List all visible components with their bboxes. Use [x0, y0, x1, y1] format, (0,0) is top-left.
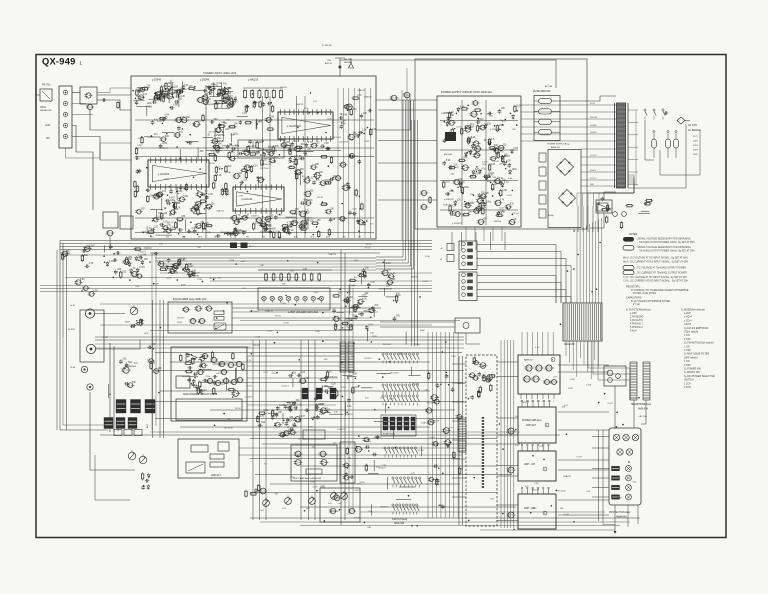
- svg-text:100P: 100P: [241, 261, 247, 263]
- tuner RF front-end part 25: [136, 103, 152, 106]
- tuner RF front-end part 54: [208, 85, 219, 91]
- above IC1 parts part 8: [253, 100, 255, 108]
- below psu drop wire v3: [475, 232, 477, 250]
- power supply regulator parts part 58: [453, 179, 463, 185]
- tuner RF front-end part 29: [134, 97, 145, 100]
- muting detector cluster A part 6: [130, 268, 136, 274]
- tuner RF front-end part 34: [141, 86, 151, 90]
- value label scatter 500-6: [535, 347, 540, 349]
- tuner gap fill y188 part 8: [146, 189, 151, 193]
- 4ch decoder cluster part 19: [279, 432, 291, 438]
- svg-text:6.8K: 6.8K: [227, 172, 232, 174]
- capacitor ant C1: [102, 98, 107, 102]
- value label scatter 440-20: [486, 113, 490, 115]
- center column parts part 3: [459, 467, 461, 475]
- svg-text:VR 5K: VR 5K: [209, 163, 216, 165]
- svg-text:OSC: OSC: [342, 237, 347, 239]
- power supply regulator parts part 50: [471, 144, 477, 150]
- below IC1 parts part 10: [284, 144, 293, 151]
- switch wires cluster part 11: [392, 429, 394, 439]
- tuner center fill part 3: [221, 165, 232, 173]
- below IC1 parts part 5: [310, 142, 320, 148]
- below tuner left fill part 1: [134, 248, 142, 250]
- vertical fan wire up 7: [595, 221, 597, 303]
- wire equalizer to switch 3: [232, 317, 370, 319]
- sub-channel inner parts part 1: [199, 369, 212, 371]
- transistor sub-ch QA5: [235, 361, 243, 366]
- tone output cluster part 17: [324, 376, 329, 382]
- svg-text:1S2473: 1S2473: [378, 468, 386, 470]
- tuner RF front-end part 49: [208, 89, 216, 94]
- vertical fan wire down 4: [576, 341, 578, 377]
- wire into amp A 7: [552, 332, 554, 355]
- tuner center fill part 10: [269, 157, 279, 163]
- bus extend y264: [160, 263, 376, 265]
- junction dot 155-22: [223, 413, 225, 415]
- tuner mid row AM converter part 26: [215, 128, 221, 143]
- tuner-psu link wire h2: [378, 140, 437, 142]
- svg-text:220u: 220u: [290, 477, 296, 479]
- wire fan 3: [477, 259, 566, 304]
- tuner left of U2 part 7: [134, 190, 136, 198]
- transformer tap 7: [628, 183, 638, 185]
- tuner mid row AM converter part 25: [192, 121, 201, 127]
- value label scatter 252-12: [330, 511, 340, 513]
- svg-text:2 OFF: 2 OFF: [684, 349, 691, 352]
- svg-text:MULTI AMP ASSY AWM-048: MULTI AMP ASSY AWM-048: [293, 477, 322, 480]
- junction dot 135-2: [256, 123, 258, 125]
- svg-text:Ta IN: Ta IN: [70, 305, 75, 307]
- power amp A pin 3: [531, 394, 532, 403]
- svg-text:AWR-111: AWR-111: [551, 146, 561, 149]
- ctrl stub wire v2: [462, 356, 464, 525]
- svg-text:0.047: 0.047: [299, 416, 305, 418]
- value label scatter 136-45: [227, 100, 231, 102]
- power amp B pin 5: [543, 400, 545, 407]
- lamp driver cluster part 15: [395, 294, 401, 303]
- value label scatter 100-11: [267, 330, 273, 332]
- svg-text:10K: 10K: [489, 115, 493, 117]
- bottom small parts part 3: [259, 488, 268, 494]
- tuner below U2 AGC part 6: [164, 228, 176, 230]
- value label scatter 136-7: [157, 121, 162, 123]
- svg-text:100u: 100u: [346, 327, 352, 329]
- svg-text:AWH-027: AWH-027: [526, 424, 537, 427]
- power supply regulator parts part 44: [474, 109, 482, 115]
- fuse AC F902: [666, 131, 671, 159]
- power feed top wire: [560, 96, 616, 101]
- value label scatter 440-25: [507, 195, 513, 197]
- tuner meter drive part 12: [342, 185, 351, 191]
- center column parts part 4: [432, 442, 440, 447]
- svg-text:0.047: 0.047: [468, 203, 474, 205]
- tuner RF front-end part 41: [175, 93, 182, 98]
- svg-text:6.8K: 6.8K: [296, 422, 301, 424]
- fuse F1: [534, 98, 560, 103]
- bottom center fill part 1: [365, 464, 367, 472]
- control amp input parts part 3: [490, 384, 492, 392]
- center column parts part 13: [433, 464, 439, 469]
- amp link band wire h6: [497, 475, 518, 477]
- transistor sub-ch QA3: [218, 361, 226, 366]
- tone output cluster part 4: [347, 373, 358, 379]
- wire fan 1: [477, 245, 556, 304]
- tuner right section part 37: [285, 214, 297, 217]
- below IC1 parts part 4: [326, 147, 331, 151]
- junction dot 135-13: [317, 112, 319, 114]
- between jacks and subch part 6: [124, 362, 133, 369]
- tuner IF discrete part 10: [249, 153, 257, 155]
- tone output cluster part 10: [329, 413, 343, 415]
- 4ch decoder cluster part 9: [289, 430, 297, 435]
- dark cap bank 2: [131, 400, 141, 414]
- table S1 row 1: [630, 312, 637, 315]
- svg-text:S₆ POWER SW: S₆ POWER SW: [684, 368, 702, 371]
- svg-text:33K: 33K: [295, 209, 300, 211]
- junction dot 135-29: [199, 168, 201, 170]
- value label scatter 440-24: [499, 208, 505, 210]
- tuner center fill part 12: [229, 155, 238, 161]
- svg-text:0.047: 0.047: [576, 457, 582, 459]
- value label scatter 252-17: [298, 439, 308, 441]
- lamp-switch gap fill part 5: [332, 308, 336, 313]
- bottom center fill part 5: [372, 453, 377, 457]
- transformer tap 1: [628, 109, 638, 111]
- svg-text:2SC1000: 2SC1000: [208, 131, 218, 133]
- schematic sheet border frame: [36, 55, 726, 538]
- tuner right upper fill part 3: [360, 113, 368, 119]
- psu drop wire 3: [483, 227, 485, 241]
- svg-text:NOTES: NOTES: [629, 233, 638, 236]
- value label scatter 160-32: [382, 344, 392, 346]
- svg-text:10K: 10K: [370, 332, 374, 334]
- svg-text:75Ω: 75Ω: [327, 60, 331, 62]
- control amp input parts part 1: [468, 395, 474, 400]
- junction dot 100-3: [103, 255, 105, 257]
- junction dot 440-16: [505, 119, 507, 121]
- muting detector cluster B part 9: [177, 260, 185, 266]
- tuner mid row AM converter part 30: [222, 143, 239, 146]
- lamp driver cluster part 1: [341, 320, 352, 324]
- svg-text:μ HA1141: μ HA1141: [241, 197, 253, 201]
- tuner internal wire h5: [135, 232, 374, 234]
- svg-text:AWF-013: AWF-013: [211, 474, 221, 477]
- svg-text:100u: 100u: [292, 214, 298, 216]
- svg-text:1K: 1K: [343, 123, 346, 125]
- control amp input parts part 4: [488, 374, 496, 377]
- amp link band wire h5: [497, 465, 518, 467]
- svg-text:2.2K: 2.2K: [208, 194, 213, 196]
- tuner RF front-end part 10: [203, 88, 212, 93]
- svg-text:AWX-054: AWX-054: [638, 408, 648, 411]
- value label scatter 500-0: [608, 403, 614, 405]
- svg-text:VIOLET: VIOLET: [590, 155, 598, 157]
- tuner bottom row part 15: [231, 231, 235, 238]
- junction dot 497-3: [573, 521, 575, 523]
- muting amp parts part 3: [346, 447, 348, 455]
- svg-text:GREEN: GREEN: [590, 125, 597, 127]
- filter dark bar 3: [397, 417, 402, 430]
- svg-text:33K: 33K: [195, 275, 199, 277]
- value label scatter 440-4: [481, 207, 487, 209]
- left col wire v1: [56, 250, 58, 430]
- value label scatter 440-23: [445, 193, 450, 195]
- svg-text:4.7K: 4.7K: [242, 113, 247, 115]
- tuner mid verticals wire v2: [269, 96, 271, 238]
- label pot 5: [338, 503, 343, 505]
- tone output cluster part 25: [319, 407, 328, 413]
- amp link band wire h1: [497, 361, 518, 363]
- label POWER SUPPLY ASSY 2: [547, 143, 570, 150]
- svg-text:2SC1000: 2SC1000: [304, 218, 314, 220]
- value label scatter 136-41: [364, 95, 372, 98]
- tuner right section part 1: [325, 208, 335, 214]
- svg-text:220u: 220u: [368, 511, 374, 513]
- value label scatter 252-5: [264, 464, 268, 466]
- power amp C pin 2: [527, 444, 529, 451]
- power bus vertical 3: [506, 340, 508, 528]
- value label scatter 160-15: [281, 385, 289, 387]
- junction dot 135-24: [328, 165, 330, 167]
- antenna junction dot: [339, 66, 342, 69]
- label Tb: [70, 367, 76, 369]
- svg-text:4.7K: 4.7K: [504, 182, 509, 184]
- value label scatter 105-24: [181, 284, 187, 286]
- amp link band wire h7: [497, 504, 518, 506]
- junction dot 135-19: [197, 234, 199, 236]
- amp link band wire h3: [497, 417, 518, 419]
- power amp A Q2: [534, 365, 543, 371]
- svg-text:μ 2SD979: μ 2SD979: [444, 199, 455, 201]
- svg-text:6.8K: 6.8K: [508, 178, 513, 180]
- svg-text:AC 120V: AC 120V: [688, 124, 698, 127]
- MPX filter box 1: [103, 212, 118, 228]
- value label scatter 136-49: [190, 231, 194, 233]
- tuner right upper fill part 6: [347, 134, 357, 140]
- sub-channel inner parts part 13: [203, 379, 209, 383]
- tuner IF discrete part 13: [226, 144, 233, 150]
- tuner RF front-end part 59: [137, 87, 150, 89]
- wire to transformer y157: [581, 156, 616, 158]
- value label scatter 105-12: [411, 275, 419, 278]
- value label scatter 440-18: [502, 121, 506, 123]
- value label scatter 105-11: [159, 243, 164, 245]
- below transformer parts part 10: [641, 211, 649, 213]
- transformer bend wire 1: [577, 183, 634, 206]
- table S2 row 1: [684, 312, 691, 315]
- svg-text:0.047: 0.047: [507, 195, 513, 197]
- power supply regulator parts part 81: [497, 145, 507, 151]
- ac switch S901: [644, 109, 665, 120]
- svg-text:220u: 220u: [175, 193, 181, 195]
- power supply regulator parts part 27: [448, 111, 454, 119]
- power supply regulator parts part 24: [457, 182, 465, 188]
- junction dot 135-39: [199, 196, 201, 198]
- value label scatter 105-2: [314, 292, 320, 294]
- center col wire v6: [314, 340, 316, 520]
- mid bus wire 1: [40, 285, 432, 287]
- junction dot 250-10: [358, 435, 360, 437]
- tuner left of U2 part 2: [136, 169, 140, 174]
- svg-text:S₆ PW SW: S₆ PW SW: [322, 45, 332, 47]
- value label scatter 440-13: [494, 220, 502, 223]
- dark cap bank 1: [116, 400, 126, 414]
- wire amp out y412: [558, 411, 609, 413]
- svg-text:70mV(4Ω) OUTPUT POWER (1kHz),: 70mV(4Ω) OUTPUT POWER (1kHz), Sg SET AT …: [639, 249, 695, 252]
- label wire BLACK 9: [590, 169, 597, 172]
- control amp input parts part 16: [477, 372, 481, 377]
- tuner below U2 AGC part 18: [150, 209, 163, 211]
- between jacks and subch part 7: [127, 382, 137, 388]
- above IC1 parts part 6: [253, 101, 258, 105]
- table S2 row 11: [684, 349, 691, 352]
- value label scatter 105-10: [425, 256, 430, 258]
- multi amp box: [291, 445, 337, 481]
- between jacks and subch part 2: [147, 359, 155, 364]
- value label scatter 500-12: [532, 489, 540, 491]
- lamp resistor R7: [310, 272, 313, 281]
- value label scatter 100-6: [315, 331, 321, 333]
- svg-text:1S2473: 1S2473: [251, 216, 259, 218]
- label EQUALIZER Assy AWF-012: [173, 297, 207, 301]
- svg-text:FM: FM: [166, 237, 169, 239]
- junction dot 135-17: [190, 222, 192, 224]
- junction dot 155-4: [342, 396, 344, 398]
- svg-text:2SC1000: 2SC1000: [228, 127, 238, 129]
- power supply regulator parts part 62: [502, 155, 511, 163]
- connector bar R1: [630, 362, 637, 400]
- tuner bottom row part 11: [263, 228, 272, 230]
- left column parts part 1: [82, 248, 90, 253]
- svg-text:100P: 100P: [362, 295, 368, 297]
- power bus vertical 5: [513, 340, 515, 528]
- left column parts part 4: [85, 263, 94, 268]
- note resistors 2: [633, 293, 656, 295]
- tuner RF front-end part 55: [213, 82, 215, 96]
- tuner right section part 26: [329, 176, 337, 181]
- power supply regulator parts part 20: [514, 105, 523, 113]
- junction dot 497-13: [515, 429, 517, 431]
- power amp A Q1: [524, 365, 533, 371]
- value label scatter 136-51: [304, 218, 314, 220]
- power supply regulator parts part 10: [443, 160, 451, 166]
- svg-text:10K: 10K: [190, 231, 194, 233]
- left col wire v2: [66, 250, 68, 430]
- tuner RF front-end part 70: [139, 86, 148, 91]
- switch wires cluster part 14: [374, 421, 390, 423]
- power supply regulator parts part 29: [470, 111, 479, 117]
- power amp B pin 2: [527, 400, 529, 407]
- junction dot 250-13: [532, 455, 534, 457]
- mid band wire 2: [160, 272, 432, 274]
- label AWH-027 D: [524, 507, 547, 515]
- junction dot 100-2: [153, 283, 155, 285]
- value label scatter 440-1: [499, 163, 503, 165]
- title suffix 1: [80, 61, 83, 66]
- value label scatter 160-30: [412, 384, 420, 386]
- svg-text:10K: 10K: [499, 163, 503, 165]
- value label scatter 500-3: [576, 457, 582, 459]
- tuner mid row AM converter part 33: [144, 135, 154, 137]
- dark cap bank 6: [128, 418, 137, 429]
- left column parts part 7: [83, 245, 95, 251]
- tuner gap fill y188 part 1: [222, 182, 227, 190]
- tone output cluster part 30: [342, 372, 353, 379]
- tuner bottom row part 1: [283, 227, 287, 232]
- value label scatter 136-18: [364, 141, 370, 143]
- svg-text:100P: 100P: [144, 333, 150, 335]
- vertical fan wire up 4: [585, 226, 587, 304]
- bus extend y261: [155, 260, 376, 262]
- center column parts part 16: [427, 419, 436, 425]
- svg-text:1K: 1K: [348, 297, 351, 299]
- svg-text:4.7K: 4.7K: [268, 186, 273, 188]
- value label scatter 100-15: [125, 321, 131, 323]
- equalizer band wire 6: [95, 347, 464, 349]
- label wire GREEN 4: [590, 132, 597, 134]
- tuner left of U2 part 6: [138, 169, 142, 174]
- svg-text:33K: 33K: [334, 412, 338, 414]
- svg-text:: SIGNAL VOLTAGE NECESSARY FOR: : SIGNAL VOLTAGE NECESSARY FOR OBTAINING: [636, 238, 691, 241]
- junction dot 135-36: [325, 132, 327, 134]
- svg-text:RED: RED: [590, 184, 595, 186]
- tuner below U2 AGC part 11: [169, 209, 179, 216]
- svg-text:33K: 33K: [491, 189, 495, 191]
- tuner below U2 AGC part 13: [161, 198, 163, 211]
- lamp driver cluster part 6: [357, 298, 368, 304]
- tuner bottom pin text 1: [150, 237, 155, 239]
- tuner IF discrete part 2: [208, 151, 218, 155]
- lamp driver cluster part 5: [364, 270, 366, 278]
- junction dot 560-1: [573, 268, 575, 270]
- svg-text:33K: 33K: [274, 494, 278, 496]
- value label scatter 252-15: [312, 486, 318, 488]
- switch wires cluster part 1: [367, 328, 369, 341]
- junction dot 250-14: [316, 490, 318, 492]
- power supply regulator parts part 6: [499, 180, 507, 186]
- tuner right upper fill part 2: [339, 113, 348, 119]
- transformer T901 winding: [617, 103, 626, 188]
- transformer core line L: [614, 103, 616, 188]
- tuner RF front-end part 40: [210, 93, 223, 96]
- tuner mid row AM converter part 8: [188, 141, 193, 145]
- tuner mid row AM converter part 5: [151, 119, 159, 125]
- junction dot 135-8: [222, 101, 224, 103]
- tuner right section part 11: [313, 172, 323, 178]
- sub-channel inner parts part 20: [235, 367, 237, 380]
- tone slider rect 3: [210, 454, 224, 459]
- svg-text:4.7K: 4.7K: [176, 265, 181, 267]
- wire to transformer y172: [581, 171, 616, 173]
- speaker terminal D: [617, 449, 623, 455]
- tuner RF front-end part 65: [196, 96, 204, 103]
- tone aux parts part 4: [141, 485, 145, 490]
- svg-text:8.2K: 8.2K: [221, 89, 226, 91]
- junction dot 100-11: [317, 298, 319, 300]
- tuner bottom row part 18: [187, 230, 192, 234]
- below transformer parts part 8: [606, 204, 608, 212]
- value label scatter 105-6: [423, 281, 429, 283]
- label 2SD786: [214, 135, 225, 137]
- tuner output bus 3: [376, 100, 408, 263]
- tuner mid row AM converter part 32: [148, 134, 161, 137]
- svg-text:2.2M: 2.2M: [445, 193, 450, 195]
- power supply regulator parts part 3: [511, 148, 519, 154]
- value label scatter 100-3: [144, 333, 150, 335]
- wire equalizer to switch 1: [232, 307, 381, 309]
- table S2 row 19: [684, 379, 694, 382]
- value label scatter 136-12: [352, 209, 357, 211]
